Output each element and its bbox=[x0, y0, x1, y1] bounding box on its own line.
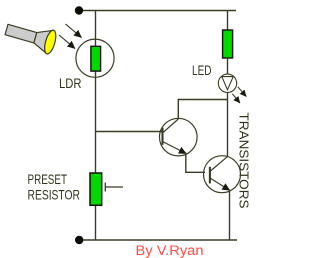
LDR: circle envelope bbox=[76, 39, 114, 77]
wire: left vertical (LDR / preset branch) bbox=[95, 11, 97, 241]
wire: stub through LDR circle bbox=[95, 39, 97, 78]
svg-text:LED: LED bbox=[192, 62, 212, 78]
LED emission arrow 1 bbox=[238, 87, 247, 97]
preset resistor: wiper T-arm bbox=[105, 186, 123, 188]
svg-text:TRANSISTORS: TRANSISTORS bbox=[237, 113, 252, 209]
svg-text:RESISTOR: RESISTOR bbox=[28, 187, 81, 203]
light arrow 2 (torch to LDR) bbox=[59, 35, 75, 49]
LED D1: triangle bbox=[222, 77, 233, 90]
LED emission arrow 2 bbox=[232, 94, 240, 103]
wire: LED to transistor collectors bbox=[227, 93, 229, 157]
LED D1: circle envelope bbox=[218, 74, 236, 92]
svg-text:By V.Ryan: By V.Ryan bbox=[136, 243, 204, 258]
wire: Q1 collector up to junction and across to LED line bbox=[178, 100, 227, 120]
svg-text:LDR: LDR bbox=[59, 75, 82, 91]
wire: Q1 emitter down and to Q2 base bbox=[186, 153, 205, 173]
svg-text:PRESET: PRESET bbox=[28, 171, 68, 187]
wire: Q1 base from left vertical bbox=[96, 131, 163, 133]
wire: Q2 emitter down to bottom rail bbox=[229, 190, 231, 241]
node: top-left junction dot bbox=[75, 6, 83, 14]
wire: top horizontal rail bbox=[79, 10, 236, 12]
light arrow 1 (torch to LDR) bbox=[66, 24, 82, 38]
transistor Q2 bbox=[204, 156, 241, 193]
wire: right vertical from top rail to LED resistor bbox=[227, 11, 229, 31]
node: bottom-left junction dot bbox=[75, 236, 83, 244]
transistor Q1 bbox=[160, 118, 198, 156]
wire: bottom horizontal rail bbox=[79, 239, 237, 241]
preset resistor: element body bbox=[90, 173, 102, 205]
resistor (LED series resistor) bbox=[223, 30, 233, 58]
torch (flashlight) bbox=[3, 18, 58, 55]
LDR: resistive element bbox=[91, 46, 101, 71]
wire: LED resistor to LED bbox=[227, 58, 229, 75]
